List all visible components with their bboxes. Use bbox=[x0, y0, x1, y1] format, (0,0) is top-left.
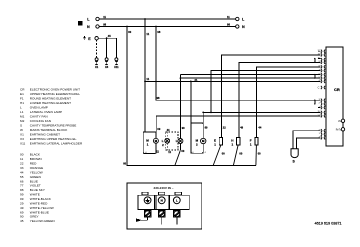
heating element F1 bbox=[255, 137, 258, 145]
screw earth bbox=[144, 211, 151, 218]
svg-text:ORANGE: ORANGE bbox=[30, 166, 43, 170]
terminal N circle bbox=[158, 197, 165, 204]
svg-text:11: 11 bbox=[146, 77, 149, 81]
svg-text:CR: CR bbox=[20, 87, 25, 91]
svg-text:X1: X1 bbox=[20, 132, 24, 136]
svg-text:49: 49 bbox=[20, 206, 24, 210]
wire F1 to bus bbox=[255, 145, 258, 165]
fan M1 motor bbox=[153, 138, 158, 143]
terminal block strip bbox=[138, 195, 189, 209]
svg-text:WHITE-BLUE: WHITE-BLUE bbox=[30, 210, 49, 214]
CR terminal ReTx bbox=[341, 128, 344, 131]
svg-text:90: 90 bbox=[20, 215, 24, 219]
svg-text:RED: RED bbox=[30, 162, 37, 166]
wire CR pin2 to E1 bbox=[222, 55, 321, 137]
CR connector pins bottom bbox=[321, 129, 325, 139]
svg-text:230-240V IN ~: 230-240V IN ~ bbox=[153, 186, 173, 190]
svg-text:55: 55 bbox=[20, 175, 24, 179]
node L junction x145 bbox=[144, 18, 146, 20]
wire probe S to CR pin lower bbox=[297, 138, 321, 149]
svg-text:11: 11 bbox=[146, 32, 149, 36]
svg-text:N: N bbox=[242, 25, 245, 29]
svg-text:99: 99 bbox=[20, 193, 24, 197]
probe S body bbox=[291, 149, 298, 158]
svg-text:66: 66 bbox=[20, 179, 24, 183]
wire N drop x127 to 00 bus bbox=[127, 27, 176, 166]
wire CR pin6 to M2 bbox=[203, 71, 320, 139]
svg-text:09: 09 bbox=[20, 197, 24, 201]
lamp L oven bbox=[179, 75, 181, 151]
svg-text:11: 11 bbox=[168, 150, 171, 154]
wire L screw stub bbox=[176, 217, 178, 225]
fan M2 box bbox=[191, 123, 203, 153]
wire E horizontal bbox=[98, 37, 116, 39]
svg-text:44: 44 bbox=[258, 126, 261, 130]
svg-text:N: N bbox=[87, 25, 90, 29]
wire N drop x156 to CR bbox=[156, 27, 320, 101]
svg-text:00: 00 bbox=[239, 152, 242, 156]
svg-text:EARTHING UPPER HEATING EL.: EARTHING UPPER HEATING EL. bbox=[30, 137, 77, 141]
svg-text:GREEN: GREEN bbox=[30, 175, 41, 179]
wire M1 feed drop bbox=[155, 116, 157, 154]
svg-text:11: 11 bbox=[20, 157, 23, 161]
lamp L1 bbox=[165, 138, 170, 143]
CR terminal Vis bbox=[341, 119, 344, 122]
svg-text:49: 49 bbox=[240, 126, 243, 130]
wire E1 to bus bbox=[213, 145, 221, 165]
svg-text:ROUND HEATING ELEMENT: ROUND HEATING ELEMENT bbox=[30, 96, 71, 100]
CR connector pins middle bbox=[321, 99, 325, 118]
node junction E1 tap bbox=[221, 81, 223, 83]
svg-text:YELLOW-GREEN: YELLOW-GREEN bbox=[30, 219, 55, 223]
svg-text:ELECTRONIC OVEN POWER UNIT: ELECTRONIC OVEN POWER UNIT bbox=[30, 87, 80, 91]
legend colour code list bbox=[20, 153, 55, 223]
wire probe S to CR pin bbox=[293, 131, 320, 149]
jumper pins 7-8 bbox=[314, 75, 316, 79]
svg-text:X3: X3 bbox=[105, 65, 109, 69]
stub CR pin3 bbox=[318, 58, 321, 60]
svg-text:WHITE-RED: WHITE-RED bbox=[30, 201, 48, 205]
svg-text:UPPER HEATING ELEMENT/GRILL: UPPER HEATING ELEMENT/GRILL bbox=[30, 92, 81, 96]
wire 00 return bus bbox=[127, 164, 256, 166]
svg-text:X11: X11 bbox=[20, 141, 26, 145]
svg-text:E: E bbox=[88, 37, 91, 41]
svg-text:MAINS TERMINAL BLOCK: MAINS TERMINAL BLOCK bbox=[30, 128, 68, 132]
earth symbol at E bbox=[83, 36, 86, 40]
svg-text:M2: M2 bbox=[20, 119, 25, 123]
svg-text:98: 98 bbox=[157, 96, 160, 100]
svg-text:98: 98 bbox=[157, 30, 160, 34]
svg-text:X3: X3 bbox=[20, 137, 24, 141]
svg-text:11: 11 bbox=[103, 15, 106, 19]
heating element H1 bbox=[237, 137, 240, 145]
screw N bbox=[158, 211, 165, 218]
svg-text:VIOLET: VIOLET bbox=[30, 184, 41, 188]
node junction M2 wire bbox=[210, 112, 212, 114]
svg-text:WHITE: WHITE bbox=[30, 193, 40, 197]
svg-text:98: 98 bbox=[103, 23, 106, 27]
earth wire arrow bbox=[136, 219, 142, 222]
terminal N right bbox=[236, 25, 239, 28]
wire L mains bbox=[99, 18, 235, 20]
svg-text:44: 44 bbox=[20, 170, 24, 174]
wire CR pin5 to F1 bbox=[257, 67, 321, 138]
screw L bbox=[174, 211, 181, 218]
svg-text:2: 2 bbox=[162, 143, 164, 147]
lamp L1 dashed box bbox=[166, 132, 178, 150]
wire CR pin4 to H1 bbox=[239, 62, 321, 137]
svg-text:1: 1 bbox=[147, 142, 149, 146]
svg-text:L: L bbox=[176, 199, 178, 203]
svg-text:L: L bbox=[242, 18, 245, 22]
jumper mid pins 1-2 bbox=[314, 100, 316, 104]
svg-text:69: 69 bbox=[205, 125, 208, 129]
wire lamp L to bus bbox=[175, 150, 181, 165]
wire CR pin8 bbox=[180, 77, 320, 79]
svg-text:90: 90 bbox=[182, 126, 185, 130]
svg-text:WHITE-YELLOW: WHITE-YELLOW bbox=[30, 206, 54, 210]
lamp L1 dashed stubs bbox=[166, 132, 168, 150]
wire M2 box tap bbox=[190, 81, 192, 122]
svg-text:LATERAL OVEN LAMP: LATERAL OVEN LAMP bbox=[30, 110, 62, 114]
svg-text:2: 2 bbox=[319, 103, 321, 105]
svg-text:00: 00 bbox=[222, 152, 225, 156]
wire CR pin9 from x145 bbox=[145, 80, 320, 82]
stub mid pin3 bbox=[318, 107, 321, 109]
svg-text:COOLING FAN: COOLING FAN bbox=[30, 119, 51, 123]
node junction x145 y81 bbox=[144, 81, 146, 83]
svg-text:S: S bbox=[292, 159, 295, 163]
terminal N left bbox=[96, 25, 99, 28]
svg-text:YELLOW: YELLOW bbox=[30, 170, 43, 174]
earthing terminal X3 bbox=[105, 58, 108, 61]
wire earth dashed to X1 bbox=[96, 40, 98, 58]
legend component list bbox=[20, 87, 83, 145]
svg-text:-1: -1 bbox=[204, 152, 207, 154]
wire N mains bbox=[99, 26, 235, 28]
pin labels bottom bbox=[319, 130, 321, 139]
svg-text:98: 98 bbox=[227, 23, 230, 27]
svg-text:GREY: GREY bbox=[30, 215, 39, 219]
svg-text:L: L bbox=[20, 105, 22, 109]
svg-text:29: 29 bbox=[20, 201, 24, 205]
svg-text:11: 11 bbox=[156, 150, 159, 154]
svg-text:88: 88 bbox=[20, 188, 24, 192]
svg-text:45: 45 bbox=[20, 219, 24, 223]
svg-text:E1: E1 bbox=[20, 92, 24, 96]
wire N screw stub bbox=[161, 217, 163, 225]
heating element E1 bbox=[219, 137, 222, 145]
terminal L right bbox=[236, 17, 239, 20]
svg-text:22: 22 bbox=[20, 162, 24, 166]
svg-text:CAVITY FAN: CAVITY FAN bbox=[30, 114, 48, 118]
svg-text:09: 09 bbox=[157, 127, 160, 131]
svg-text:N: N bbox=[161, 199, 163, 203]
svg-text:00: 00 bbox=[20, 153, 24, 157]
svg-text:69: 69 bbox=[20, 210, 24, 214]
svg-text:00: 00 bbox=[181, 149, 184, 153]
svg-text:44: 44 bbox=[167, 128, 170, 132]
svg-text:H1: H1 bbox=[20, 101, 24, 105]
svg-text:45: 45 bbox=[108, 34, 111, 38]
svg-text:M1: M1 bbox=[20, 114, 25, 118]
CR connector pins top bbox=[321, 50, 325, 83]
wire M2 to CR mid pin bbox=[211, 111, 320, 113]
svg-text:L1: L1 bbox=[20, 110, 24, 114]
wire earth screw stub bbox=[142, 217, 148, 220]
jumper pins 3-4 bbox=[314, 59, 316, 63]
svg-text:EARTHING CABINET: EARTHING CABINET bbox=[30, 132, 60, 136]
svg-text:BLUE SKY: BLUE SKY bbox=[30, 188, 45, 192]
terminal block tabs bbox=[142, 192, 148, 195]
svg-text:S: S bbox=[20, 123, 22, 127]
svg-text:F1: F1 bbox=[20, 96, 24, 100]
CR connector pin C bbox=[321, 86, 325, 89]
svg-text:1: 1 bbox=[319, 133, 321, 135]
svg-text:1: 1 bbox=[214, 143, 216, 147]
svg-text:1: 1 bbox=[250, 143, 252, 147]
node N junction x127 bbox=[126, 26, 128, 28]
pin labels top bbox=[317, 50, 320, 82]
node junction M2 tap bbox=[190, 81, 192, 83]
wire H1 to bus bbox=[233, 145, 238, 165]
terminal L circle bbox=[173, 197, 180, 204]
svg-text:X1: X1 bbox=[95, 65, 99, 69]
wire M1 to CR mid pin bbox=[156, 115, 320, 117]
pin labels middle bbox=[317, 99, 320, 117]
svg-text:OVEN LAMP: OVEN LAMP bbox=[30, 105, 48, 109]
svg-text:33: 33 bbox=[20, 166, 24, 170]
svg-text:BLUE: BLUE bbox=[30, 179, 38, 183]
terminal E left bbox=[95, 37, 98, 40]
svg-text:L: L bbox=[176, 139, 178, 143]
node N junction x156 bbox=[155, 26, 157, 28]
wire CR pin7 from lamp L bbox=[180, 74, 320, 76]
wire earth to X3 bbox=[106, 38, 108, 57]
svg-text:LOWER HEATING ELEMENT: LOWER HEATING ELEMENT bbox=[30, 101, 71, 105]
mains terminal marker W bbox=[78, 21, 82, 25]
svg-text:CR: CR bbox=[334, 87, 340, 92]
svg-text:00: 00 bbox=[258, 152, 261, 156]
svg-text:X11: X11 bbox=[114, 65, 119, 69]
svg-text:22: 22 bbox=[223, 126, 226, 130]
svg-text:77: 77 bbox=[20, 184, 24, 188]
stub CR pin1 bbox=[318, 50, 321, 52]
svg-text:WHITE-BLACK: WHITE-BLACK bbox=[30, 197, 52, 201]
svg-text:EARTHING LATERAL LAMPHOLDER: EARTHING LATERAL LAMPHOLDER bbox=[30, 141, 83, 145]
earthing terminal X1 bbox=[95, 58, 98, 61]
svg-text:L: L bbox=[87, 18, 90, 22]
wire earth to X11 bbox=[115, 38, 117, 57]
wire L drop x145 bbox=[144, 19, 146, 132]
oven power unit CR box bbox=[326, 47, 343, 146]
terminal earth circle bbox=[144, 197, 151, 204]
svg-text:00: 00 bbox=[128, 30, 131, 34]
terminal L left bbox=[96, 17, 99, 20]
svg-text:4619 619 03871: 4619 619 03871 bbox=[315, 220, 342, 225]
fan M2 motor bbox=[201, 138, 206, 143]
earthing terminal X11 bbox=[115, 58, 118, 61]
svg-text:BROWN: BROWN bbox=[30, 157, 42, 161]
svg-text:ReTx: ReTx bbox=[336, 129, 342, 131]
svg-text:W: W bbox=[20, 128, 23, 132]
terminal block W outer box bbox=[127, 183, 202, 229]
svg-text:11: 11 bbox=[227, 15, 230, 19]
fan M1 box bbox=[143, 132, 156, 154]
svg-text:00: 00 bbox=[123, 161, 126, 165]
svg-text:2: 2 bbox=[196, 142, 198, 146]
node junction M2 feed bbox=[202, 112, 204, 114]
node E junction bbox=[106, 37, 108, 39]
svg-text:1: 1 bbox=[232, 143, 234, 147]
svg-text:BLACK: BLACK bbox=[30, 153, 41, 157]
svg-text:CAVITY TEMPERATURE PROBE: CAVITY TEMPERATURE PROBE bbox=[30, 123, 77, 127]
svg-text:C: C bbox=[318, 87, 320, 90]
